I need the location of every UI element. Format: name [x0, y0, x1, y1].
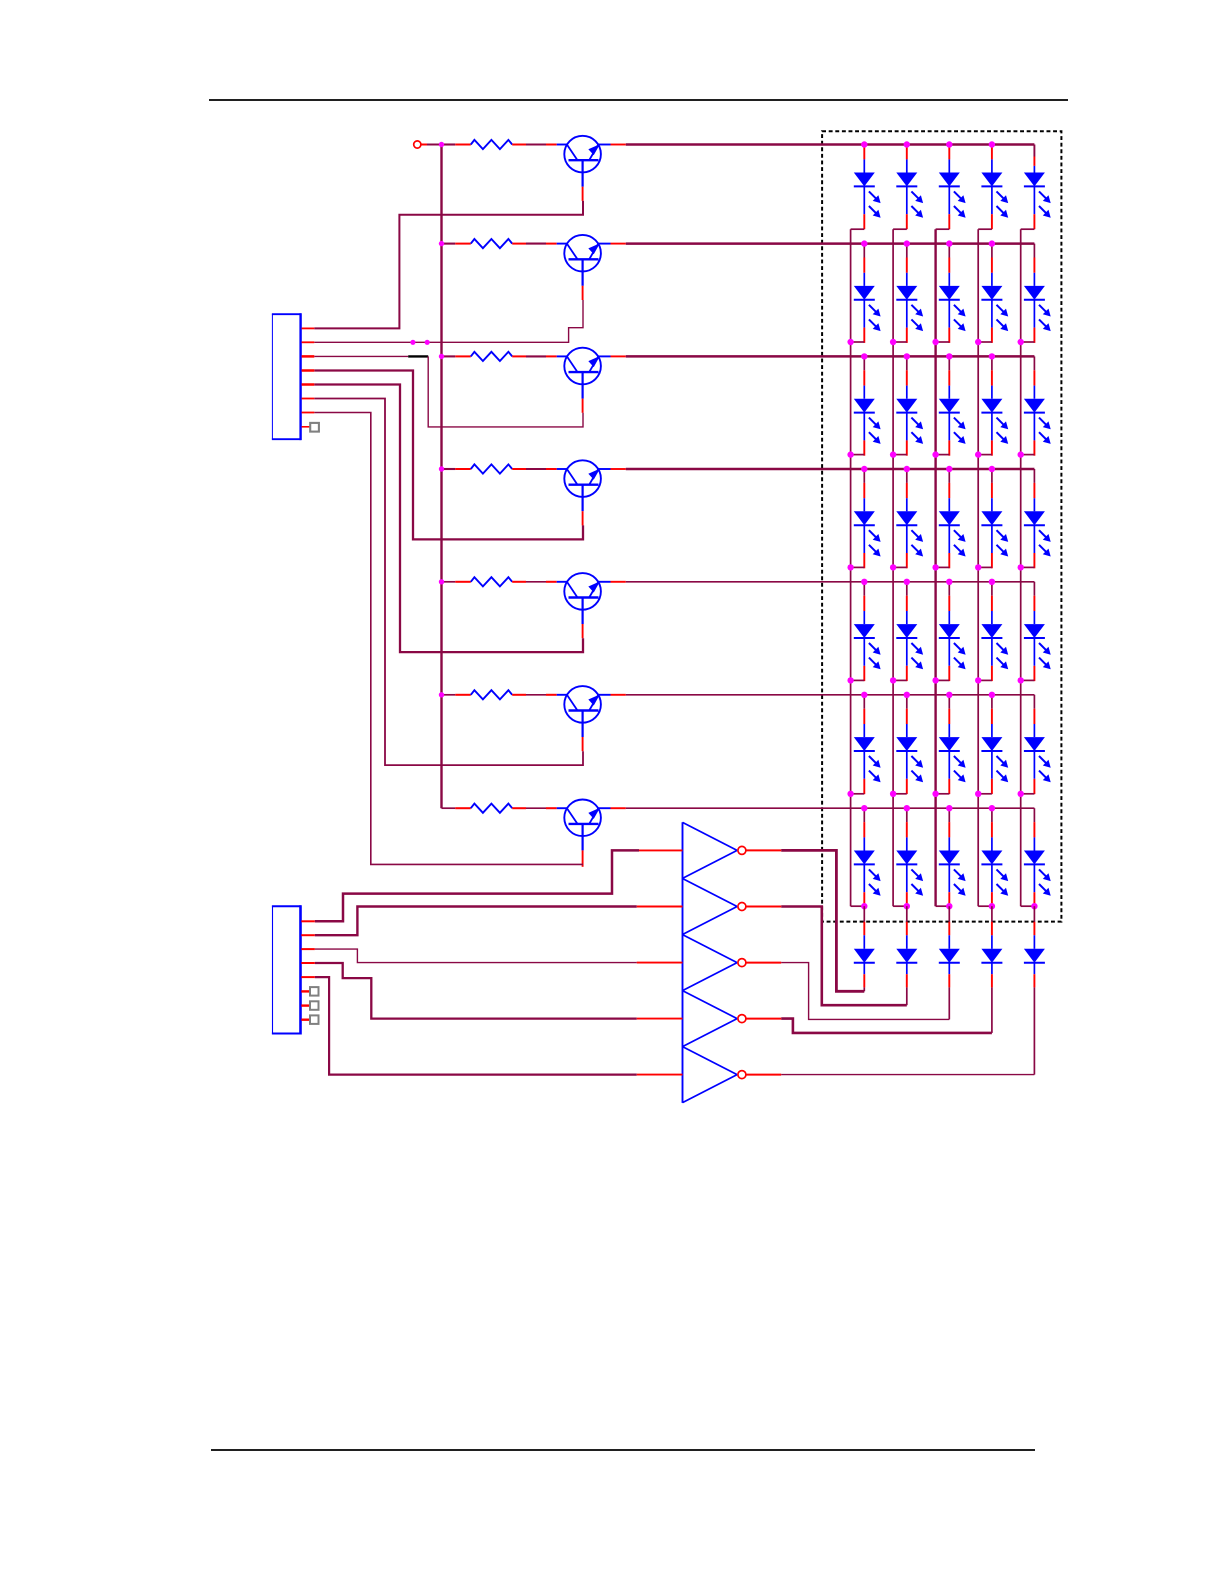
transistor Q4 [546, 460, 611, 511]
wire: column 1 cathode bus [850, 229, 852, 906]
wire: row3 bus to D34 anode [991, 356, 993, 370]
wire: row 7 bus to LED matrix [626, 807, 1035, 809]
LED D35 [1024, 370, 1051, 455]
junction: bus / row 1 [439, 142, 444, 147]
junction: col 5 bottom [1031, 903, 1037, 909]
LED D64 [981, 709, 1008, 794]
LED D73 [939, 822, 966, 907]
inverter U1C output bubble [738, 959, 746, 967]
inverter U1C output pin [746, 962, 782, 964]
junction: col bus / D35 cathode [1018, 451, 1024, 457]
diode D82 [896, 922, 917, 988]
wire: row5 bus to D51 anode [863, 582, 865, 596]
wire: D51 cathode jog [851, 679, 865, 681]
wire: diode D81 to inverter [863, 987, 865, 991]
connector J1 pin 8 (NC) [302, 426, 311, 428]
LED D62 [896, 709, 923, 794]
transistor Q3 [546, 348, 611, 399]
junction: col 1 bottom [861, 903, 867, 909]
junction: col bus / D42 cathode [890, 564, 896, 570]
wire: D33 cathode jog [936, 454, 950, 456]
junction: col bus / D22 cathode [890, 339, 896, 345]
wire: J1 pin 3 black segment [408, 355, 428, 357]
junction: row7 bus / D71 anode [861, 805, 867, 811]
wire: U1E output to column 5 [781, 1074, 1034, 1076]
inverter U1A input pin [637, 849, 683, 851]
wire: diode D85 to inverter [1033, 987, 1035, 1074]
junction: col bus / D53 cathode [932, 677, 938, 683]
wire: J1 pin3 to Q3 base [428, 356, 583, 427]
junction: col bus / D34 cathode [975, 451, 981, 457]
LED D14 [981, 146, 1008, 229]
junction: row3 bus / D31 anode [861, 353, 867, 359]
wire: column 3 cathode bus [934, 229, 936, 906]
LED D54 [981, 596, 1008, 681]
wire: D15 cathode jog [1021, 228, 1035, 230]
junction: row2 bus / D23 anode [946, 240, 952, 246]
LED D21 [854, 258, 881, 343]
wire: D21 cathode jog [851, 341, 865, 343]
dashed box around LED matrix [822, 131, 1061, 921]
NC marker J1 pin 8 [310, 423, 319, 432]
wire: col 5 to diode D85 [1033, 906, 1035, 922]
wire: Q6 base to J1 pin 6 [314, 399, 583, 766]
LED D32 [896, 370, 923, 455]
resistor R4 right pin [512, 468, 526, 470]
LED D23 [939, 258, 966, 343]
resistor R4 left pin [455, 468, 471, 470]
wire: D74 cathode jog [978, 905, 992, 907]
wire: U1A output to column 1 [781, 850, 864, 991]
junction: row7 bus / D73 anode [946, 805, 952, 811]
junction: row6 bus / D64 anode [989, 692, 995, 698]
wire: row2 bus to D25 anode [1033, 244, 1035, 258]
wire: bus to R2 [442, 243, 456, 245]
transistor Q2 [546, 235, 611, 286]
port P1 pin [421, 144, 427, 146]
wire: row 5 bus to LED matrix [626, 581, 1035, 583]
LED D74 [981, 822, 1008, 907]
wire: D14 cathode jog [978, 228, 992, 230]
wire: row6 bus to D63 anode [948, 695, 950, 709]
wire: D31 cathode jog [851, 454, 865, 456]
junction: col bus / D51 cathode [847, 677, 853, 683]
wire: J2 pin 1 to U1A input [315, 850, 639, 921]
wire: row4 bus to D43 anode [948, 469, 950, 483]
transistor Q6 [546, 686, 611, 737]
junction: col 3 bottom [946, 903, 952, 909]
diode D81 [854, 922, 875, 988]
wire: R5 to Q5 [526, 581, 546, 583]
junction: col bus / D24 cathode [975, 339, 981, 345]
wire: col 1 to diode D81 [863, 906, 865, 922]
LED D41 [854, 483, 881, 568]
resistor R4 [471, 464, 512, 473]
junction: bus / row 3 [439, 354, 444, 359]
wire: row2 bus to D23 anode [948, 244, 950, 258]
junction: row5 bus / D51 anode [861, 579, 867, 585]
junction: row4 bus / D43 anode [946, 466, 952, 472]
wire: D61 cathode jog [851, 793, 865, 795]
junction: row4 bus / D42 anode [904, 466, 910, 472]
wire: row7 bus to D71 anode [863, 808, 865, 822]
connector J2 pin 3 [301, 948, 315, 950]
wire: row5 bus to D55 anode [1033, 582, 1035, 596]
wire: row 2 bus to LED matrix [626, 242, 1035, 245]
inverter U1E [683, 1047, 738, 1103]
wire: row3 bus to D33 anode [948, 356, 950, 370]
connector J2 pin 7 (NC) [301, 1004, 310, 1006]
resistor R7 [471, 804, 512, 813]
LED D24 [981, 258, 1008, 343]
LED D55 [1024, 596, 1051, 681]
junction: col bus / D43 cathode [932, 564, 938, 570]
LED D75 [1024, 822, 1051, 907]
transistor Q3 base pin [582, 399, 584, 413]
wire: vertical supply bus [440, 145, 442, 809]
wire: D11 cathode jog [851, 228, 865, 230]
transistor Q3 collector pin [611, 355, 626, 357]
wire: col 2 to diode D82 [906, 906, 908, 922]
inverter U1E output pin [746, 1074, 782, 1076]
wire: D41 cathode jog [851, 566, 865, 568]
resistor R3 left pin [455, 355, 471, 357]
connector J1 pin 7 [302, 412, 315, 414]
diode D84 [981, 922, 1002, 988]
connector J2 pin 2 [301, 934, 315, 936]
wire: J1 pin 3 (maroon segment) [314, 355, 408, 357]
wire: D64 cathode jog [978, 793, 992, 795]
inverter U1B input pin [637, 906, 683, 908]
LED D42 [896, 483, 923, 568]
wire: port to bus [427, 144, 442, 146]
wire: bus to R3 [442, 355, 456, 357]
junction on J1 pin2 wire (a) [410, 340, 415, 345]
connector J1 pin 5 [302, 383, 315, 386]
connector J2 pin 6 (NC) [301, 990, 310, 992]
LED D25 [1024, 258, 1051, 343]
LED D34 [981, 370, 1008, 455]
resistor R7 right pin [512, 807, 526, 809]
connector J1 pin 2 [302, 341, 315, 343]
resistor R7 left pin [455, 807, 471, 809]
inverter U1B [683, 879, 738, 935]
diode D83 [939, 922, 960, 988]
transistor Q5 collector pin [611, 581, 626, 583]
wire: row6 bus to D61 anode [863, 695, 865, 709]
junction: row1 bus / D11 anode [861, 141, 867, 147]
LED D11 [854, 146, 881, 229]
junction: col 4 bottom [989, 903, 995, 909]
transistor Q7 collector pin [611, 807, 626, 809]
junction: col bus / D33 cathode [932, 451, 938, 457]
wire: row4 bus to D45 anode [1033, 469, 1035, 483]
transistor Q2 collector pin [611, 243, 626, 245]
wire: bus to R4 [442, 468, 456, 470]
wire: row4 bus to D44 anode [991, 469, 993, 483]
resistor R3 [471, 352, 512, 361]
wire: J2 pin 3 to U1C input [315, 949, 637, 963]
wire: row7 bus to D74 anode [991, 808, 993, 822]
NC marker J2 pin 7 [310, 1001, 319, 1010]
connector J1 pin 1 [302, 327, 315, 329]
connector J2 pin 4 [301, 962, 315, 964]
wire: D12 cathode jog [893, 228, 907, 230]
inverter bank U1 left edge [682, 822, 684, 1103]
LED D65 [1024, 709, 1051, 794]
wire: row4 bus to D42 anode [906, 469, 908, 483]
junction: col bus / D62 cathode [890, 791, 896, 797]
wire: D63 cathode jog [936, 793, 950, 795]
page header rule [209, 99, 1068, 101]
wire: D22 cathode jog [893, 341, 907, 343]
LED D44 [981, 483, 1008, 568]
wire: R6 to Q6 [526, 694, 546, 696]
junction: col bus / D31 cathode [847, 451, 853, 457]
wire: diode D82 to inverter [906, 987, 908, 1005]
wire: bus to R1 [442, 143, 456, 145]
junction: row5 bus / D53 anode [946, 579, 952, 585]
wire: bus to R5 [442, 581, 456, 583]
NC marker J2 pin 8 [310, 1015, 319, 1024]
junction: row2 bus / D21 anode [861, 240, 867, 246]
junction: col bus / D63 cathode [932, 791, 938, 797]
junction: col bus / D55 cathode [1018, 677, 1024, 683]
inverter U1A output bubble [738, 846, 746, 854]
inverter U1D input pin [637, 1018, 683, 1020]
resistor R2 right pin [512, 243, 526, 245]
junction: row1 bus / D12 anode [904, 141, 910, 147]
port P1 (row supply input) [414, 141, 421, 148]
junction: col bus / D23 cathode [932, 339, 938, 345]
connector J2 pin 5 [301, 976, 315, 978]
wire: row2 bus to D21 anode [863, 244, 865, 258]
wire: column 4 cathode bus [977, 229, 979, 906]
wire: R7 to Q7 [526, 807, 546, 809]
transistor Q5 base pin [582, 624, 584, 638]
LED D63 [939, 709, 966, 794]
wire: D62 cathode jog [893, 793, 907, 795]
wire: row2 bus to D24 anode [991, 244, 993, 258]
junction: col bus / D41 cathode [847, 564, 853, 570]
wire: D25 cathode jog [1021, 341, 1035, 343]
LED D31 [854, 370, 881, 455]
junction: row6 bus / D63 anode [946, 692, 952, 698]
connector J1 pin 6 [302, 398, 315, 400]
wire: R2 to Q2 [526, 243, 546, 245]
inverter U1E input pin [637, 1074, 683, 1076]
connector J2 pin 8 (NC) [301, 1019, 310, 1021]
resistor R2 [471, 239, 512, 248]
wire: D35 cathode jog [1021, 454, 1035, 456]
inverter U1C input pin [637, 962, 683, 964]
junction: col 2 bottom [904, 903, 910, 909]
transistor Q7 [546, 800, 611, 851]
resistor R2 left pin [455, 243, 471, 245]
connector J1 [272, 313, 301, 440]
wire: J2 pin 5 to U1E input [315, 977, 637, 1075]
junction: col bus / D21 cathode [847, 339, 853, 345]
wire: Q1 base to J1 pin 1 [314, 201, 583, 329]
junction: row4 bus / D41 anode [861, 466, 867, 472]
wire: U1D output to column 4 [781, 1019, 992, 1033]
junction: col bus / D64 cathode [975, 791, 981, 797]
LED D61 [854, 709, 881, 794]
wire: column 5 cathode bus [1020, 229, 1022, 906]
wire: row 4 bus to LED matrix [626, 468, 1035, 471]
wire: U1B output to column 2 [781, 907, 907, 1006]
wire: Q2 base to J1 pin 2 [314, 300, 583, 342]
wire: col 3 to diode D83 [948, 906, 950, 922]
LED D33 [939, 370, 966, 455]
LED D52 [896, 596, 923, 681]
junction: col bus / D32 cathode [890, 451, 896, 457]
LED D72 [896, 822, 923, 907]
wire: D53 cathode jog [936, 679, 950, 681]
junction: row3 bus / D33 anode [946, 353, 952, 359]
resistor R1 left pin [455, 144, 471, 146]
wire: D34 cathode jog [978, 454, 992, 456]
wire: D75 cathode jog [1021, 905, 1035, 907]
junction: row6 bus / D62 anode [904, 692, 910, 698]
wire: D43 cathode jog [936, 566, 950, 568]
junction: row5 bus / D54 anode [989, 579, 995, 585]
junction: row1 bus / D13 anode [946, 141, 952, 147]
wire: R1 to Q1 [526, 143, 546, 145]
wire: U1C output to column 3 [781, 963, 949, 1020]
connector J1 pin 4 [302, 369, 315, 372]
wire: row5 bus to D53 anode [948, 582, 950, 596]
LED D43 [939, 483, 966, 568]
wire: row7 bus to D72 anode [906, 808, 908, 822]
junction: col bus / D54 cathode [975, 677, 981, 683]
resistor R5 right pin [512, 581, 526, 583]
LED D51 [854, 596, 881, 681]
wire: row4 bus to D41 anode [863, 469, 865, 483]
wire: row6 bus to D65 anode [1033, 695, 1035, 709]
junction: col bus / D52 cathode [890, 677, 896, 683]
junction: row2 bus / D22 anode [904, 240, 910, 246]
wire: row3 bus to D35 anode [1033, 356, 1035, 370]
LED D53 [939, 596, 966, 681]
junction: bus / row 5 [439, 579, 444, 584]
junction: bus / row 2 [439, 241, 444, 246]
transistor Q1 [546, 136, 611, 187]
transistor Q7 base pin [582, 850, 584, 866]
transistor Q6 collector pin [611, 694, 626, 696]
junction: row3 bus / D32 anode [904, 353, 910, 359]
wire: Q7 base to J1 pin 7 [314, 413, 583, 865]
wire: D54 cathode jog [978, 679, 992, 681]
wire: diode D83 to inverter [948, 987, 950, 1019]
junction: row4 bus / D44 anode [989, 466, 995, 472]
wire: row1 bus corner to D15 anode [1033, 145, 1035, 157]
resistor R5 [471, 577, 512, 586]
wire: D52 cathode jog [893, 679, 907, 681]
connector J2 pin 1 [301, 920, 315, 922]
wire: row3 bus to D31 anode [863, 356, 865, 370]
junction: row7 bus / D74 anode [989, 805, 995, 811]
wire: R4 to Q4 [526, 468, 546, 470]
wire: Q4 base to J1 pin 4 [314, 371, 583, 540]
wire: row2 bus to D22 anode [906, 244, 908, 258]
junction: bus / row 6 [439, 692, 444, 697]
wire: row6 bus to D64 anode [991, 695, 993, 709]
junction: row2 bus / D24 anode [989, 240, 995, 246]
inverter U1B output pin [746, 906, 782, 908]
wire: D65 cathode jog [1021, 793, 1035, 795]
connector J2 [272, 905, 301, 1034]
junction: bus / row 4 [439, 466, 444, 471]
wire: bus to R6 [442, 694, 456, 696]
transistor Q5 [546, 573, 611, 624]
wire: row 6 bus to LED matrix [626, 694, 1035, 696]
wire: D42 cathode jog [893, 566, 907, 568]
wire: D55 cathode jog [1021, 679, 1035, 681]
connector J1 pin 3 [302, 355, 315, 358]
resistor R3 right pin [512, 355, 526, 357]
wire: J2 pin 2 to U1B input [315, 907, 637, 936]
junction on J1 pin2 wire (b) [425, 340, 430, 345]
wire: row 1 bus to LED matrix [626, 143, 1035, 146]
inverter U1A output pin [746, 849, 782, 851]
resistor R6 left pin [455, 694, 471, 696]
transistor Q4 collector pin [611, 468, 626, 470]
wire: row5 bus to D52 anode [906, 582, 908, 596]
wire: diode D84 to inverter [991, 987, 993, 1033]
wire: D23 cathode jog [936, 341, 950, 343]
transistor Q1 collector pin [611, 144, 626, 146]
transistor Q2 base pin [582, 286, 584, 300]
LED D15 [1024, 157, 1051, 230]
transistor Q1 base pin [582, 187, 584, 201]
wire: row 3 bus to LED matrix [626, 355, 1035, 358]
wire: D73 cathode jog [936, 905, 950, 907]
inverter U1A [683, 822, 738, 878]
inverter U1D [683, 991, 738, 1047]
wire: D45 cathode jog [1021, 566, 1035, 568]
wire: row6 bus to D62 anode [906, 695, 908, 709]
inverter U1B output bubble [738, 903, 746, 911]
inverter U1D output bubble [738, 1015, 746, 1023]
wire: R3 to Q3 [526, 355, 546, 357]
wire: D72 cathode jog [893, 905, 907, 907]
resistor R1 right pin [512, 144, 526, 146]
resistor R6 [471, 690, 512, 699]
resistor R5 left pin [455, 581, 471, 583]
LED D13 [939, 146, 966, 229]
wire: Q5 base to J1 pin 5 [314, 385, 583, 653]
wire: D24 cathode jog [978, 341, 992, 343]
wire: D32 cathode jog [893, 454, 907, 456]
inverter U1C [683, 935, 738, 991]
junction: col bus / D61 cathode [847, 791, 853, 797]
junction: row6 bus / D61 anode [861, 692, 867, 698]
transistor Q6 base pin [582, 737, 584, 751]
page footer rule [211, 1449, 1035, 1451]
junction: row7 bus / D72 anode [904, 805, 910, 811]
resistor R6 right pin [512, 694, 526, 696]
resistor R1 [471, 140, 512, 149]
junction: row3 bus / D34 anode [989, 353, 995, 359]
junction: col bus / D65 cathode [1018, 791, 1024, 797]
LED D12 [896, 146, 923, 229]
wire: J2 pin 4 to U1D input [315, 963, 637, 1019]
junction: col bus / D25 cathode [1018, 339, 1024, 345]
LED D71 [854, 822, 881, 907]
junction: row5 bus / D52 anode [904, 579, 910, 585]
diode D85 [1024, 922, 1045, 988]
